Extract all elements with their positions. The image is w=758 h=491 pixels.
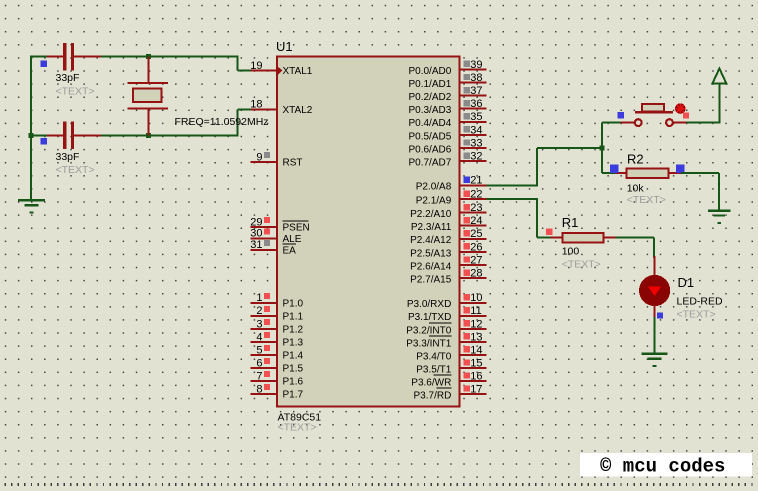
svg-text:P2.2/A10: P2.2/A10 — [410, 209, 452, 220]
U1 pin 32 (P0.7/AD7) — [408, 151, 486, 169]
svg-text:12: 12 — [470, 318, 482, 330]
value label R1 100 — [562, 245, 580, 257]
U1 pin 19 (XTAL1) — [250, 60, 313, 77]
svg-text:14: 14 — [470, 344, 482, 356]
svg-text:<TEXT>: <TEXT> — [56, 164, 95, 176]
ground (left, below C2) — [18, 200, 45, 212]
reference label R1 — [562, 215, 579, 230]
wire R2 right lead to ground — [681, 173, 719, 211]
svg-text:17: 17 — [470, 383, 482, 395]
svg-text:XTAL2: XTAL2 — [283, 105, 313, 116]
value label C2 33pF — [56, 151, 80, 163]
U1 pin 27 (P2.6/A14) — [410, 254, 486, 272]
resistor R1 100 — [546, 229, 615, 243]
svg-text:2: 2 — [256, 305, 262, 317]
U1 pin 1 (P1.0) — [250, 292, 303, 309]
svg-text:R1: R1 — [562, 215, 579, 230]
U1 pin 31 (EA) — [250, 239, 296, 256]
svg-text:15: 15 — [470, 357, 482, 369]
U1 pin 18 (XTAL2) — [250, 99, 313, 116]
svg-text:36: 36 — [470, 98, 482, 110]
svg-text:EA: EA — [283, 245, 297, 256]
U1 pin 15 (P3.5/T1) — [416, 357, 486, 375]
U1 pin 14 (P3.4/T0) — [416, 344, 486, 362]
U1 pin 25 (P2.4/A12) — [410, 228, 486, 246]
svg-text:D1: D1 — [678, 275, 695, 290]
svg-text:P0.3/AD3: P0.3/AD3 — [408, 105, 451, 116]
svg-text:33pF: 33pF — [56, 151, 80, 163]
svg-text:1: 1 — [256, 292, 262, 304]
junction dot C2 row / ground wire — [29, 133, 34, 138]
svg-text:FREQ=11.0592MHz: FREQ=11.0592MHz — [175, 116, 269, 128]
svg-text:32: 32 — [470, 151, 482, 163]
U1 pin 10 (P3.0/RXD) — [407, 292, 486, 310]
svg-text:P1.6: P1.6 — [283, 377, 304, 388]
LED D1 (LED-RED) — [639, 256, 670, 319]
property label R2 <TEXT> — [627, 194, 666, 206]
watermark banner mcu codes — [580, 453, 752, 477]
svg-text:38: 38 — [470, 72, 482, 84]
svg-text:P1.2: P1.2 — [283, 324, 304, 335]
svg-text:<TEXT>: <TEXT> — [627, 194, 666, 206]
U1 pin 34 (P0.5/AD5) — [408, 124, 486, 142]
svg-text:ALE: ALE — [283, 234, 302, 245]
value label crystal FREQ=11.0592MHz — [175, 116, 269, 128]
wire left vertical to ground — [30, 56, 32, 201]
svg-text:21: 21 — [470, 175, 482, 187]
svg-text:P1.5: P1.5 — [283, 364, 304, 375]
svg-text:P3.5/T1: P3.5/T1 — [416, 364, 451, 375]
capacitor C1 33pF — [41, 43, 101, 70]
svg-text:39: 39 — [470, 59, 482, 71]
svg-text:P1.0: P1.0 — [283, 298, 304, 309]
svg-text:P3.4/T0: P3.4/T0 — [416, 351, 451, 362]
svg-text:19: 19 — [250, 60, 262, 72]
svg-text:5: 5 — [256, 344, 262, 356]
svg-text:P3.6/WR: P3.6/WR — [411, 377, 451, 388]
U1 pin 9 (RST) — [250, 151, 302, 168]
svg-text:11: 11 — [470, 305, 481, 317]
svg-text:24: 24 — [470, 215, 482, 227]
U1 pin 5 (P1.4) — [250, 344, 303, 361]
value label C1 33pF — [56, 72, 80, 84]
push button — [618, 104, 687, 126]
junction dot node between button and R2 — [600, 146, 605, 151]
wire junction down to R2 left lead — [602, 148, 616, 173]
svg-text:P2.4/A12: P2.4/A12 — [410, 235, 452, 246]
svg-text:P0.6/AD6: P0.6/AD6 — [408, 144, 451, 155]
wire XTAL2 net: C2 row to U1 pin 18 — [30, 109, 251, 136]
U1 pin 12 (P3.2/INT0) — [406, 318, 486, 336]
svg-text:<TEXT>: <TEXT> — [278, 422, 317, 434]
U1 pin 36 (P0.3/AD3) — [408, 98, 486, 116]
svg-text:31: 31 — [250, 239, 262, 251]
resistor R2 10k — [610, 165, 684, 178]
svg-text:33pF: 33pF — [56, 72, 80, 84]
U1 pin 24 (P2.3/A11) — [411, 215, 486, 233]
U1 pin 22 (P2.1/A9) — [416, 189, 487, 207]
svg-text:P2.3/A11: P2.3/A11 — [411, 222, 452, 233]
property label C1 <TEXT> — [56, 86, 95, 98]
svg-text:P0.7/AD7: P0.7/AD7 — [408, 158, 451, 169]
svg-text:P1.3: P1.3 — [283, 337, 304, 348]
U1 pin 8 (P1.7) — [250, 383, 303, 400]
junction dot crystal top — [146, 54, 151, 59]
U1 pin 3 (P1.2) — [250, 318, 303, 335]
svg-text:P3.2/INT0: P3.2/INT0 — [406, 325, 451, 336]
svg-text:37: 37 — [470, 85, 482, 97]
U1 pin 23 (P2.2/A10) — [410, 202, 486, 220]
wire U1 pin 22 to R1 — [486, 198, 550, 237]
wire R1 right lead to LED anode — [616, 238, 654, 258]
svg-text:P3.3/INT1: P3.3/INT1 — [406, 338, 451, 349]
U1 pin 7 (P1.6) — [250, 370, 303, 387]
svg-text:16: 16 — [470, 370, 482, 382]
capacitor C2 33pF — [41, 122, 101, 149]
svg-text:23: 23 — [470, 202, 482, 214]
crystal X1 — [127, 57, 168, 136]
U1 pin 33 (P0.6/AD6) — [408, 137, 486, 155]
U1 pin 2 (P1.1) — [250, 305, 303, 322]
svg-text:27: 27 — [470, 254, 482, 266]
svg-text:25: 25 — [470, 228, 482, 240]
svg-text:P1.7: P1.7 — [283, 390, 304, 401]
U1 pin 13 (P3.3/INT1) — [406, 331, 486, 349]
svg-text:6: 6 — [256, 357, 262, 369]
U1 pin 26 (P2.5/A13) — [410, 241, 486, 259]
wire junction up to button left terminal — [602, 123, 621, 148]
svg-text:28: 28 — [470, 268, 482, 280]
svg-text:10: 10 — [470, 292, 482, 304]
U1 pin 35 (P0.4/AD4) — [408, 111, 486, 129]
svg-text:P0.0/AD0: P0.0/AD0 — [408, 66, 451, 77]
svg-text:26: 26 — [470, 241, 482, 253]
property label C2 <TEXT> — [56, 164, 95, 176]
svg-text:P0.2/AD2: P0.2/AD2 — [408, 92, 451, 103]
value label R2 10k — [627, 183, 645, 195]
property label R1 <TEXT> — [562, 258, 601, 270]
svg-text:29: 29 — [250, 216, 262, 228]
svg-text:13: 13 — [470, 331, 482, 343]
value label D1 LED-RED — [677, 296, 724, 308]
svg-text:P1.4: P1.4 — [283, 351, 304, 362]
svg-text:P0.4/AD4: P0.4/AD4 — [408, 118, 451, 129]
svg-text:P3.1/TXD: P3.1/TXD — [408, 312, 451, 323]
svg-text:R2: R2 — [627, 152, 644, 167]
svg-text:P3.0/RXD: P3.0/RXD — [407, 299, 451, 310]
power symbol (+5V up arrow) — [712, 69, 726, 124]
svg-text:33: 33 — [470, 137, 482, 149]
wire button right terminal to power rail — [686, 122, 719, 124]
svg-text:4: 4 — [256, 331, 262, 343]
svg-text:35: 35 — [470, 111, 482, 123]
svg-text:P2.0/A8: P2.0/A8 — [416, 182, 452, 193]
svg-text:P2.7/A15: P2.7/A15 — [410, 275, 452, 286]
svg-text:7: 7 — [256, 370, 262, 382]
svg-text:18: 18 — [250, 99, 262, 111]
svg-text:<TEXT>: <TEXT> — [562, 258, 601, 270]
svg-text:8: 8 — [256, 383, 262, 395]
clock input arrow at XTAL1 pin — [277, 66, 283, 76]
U1 pin 30 (ALE) — [250, 228, 301, 245]
svg-text:XTAL1: XTAL1 — [283, 66, 313, 77]
U1 pin 29 (PSEN) — [250, 216, 309, 233]
svg-text:RST: RST — [283, 158, 303, 169]
svg-text:U1: U1 — [276, 39, 293, 54]
svg-text:3: 3 — [256, 318, 262, 330]
U1 pin 11 (P3.1/TXD) — [408, 305, 486, 323]
svg-text:P2.5/A13: P2.5/A13 — [410, 248, 452, 259]
svg-text:P2.1/A9: P2.1/A9 — [416, 196, 452, 207]
svg-text:P1.1: P1.1 — [283, 311, 304, 322]
reference label U1 — [276, 39, 293, 54]
svg-text:P3.7/RD: P3.7/RD — [414, 390, 452, 401]
svg-text:P2.6/A14: P2.6/A14 — [410, 261, 452, 272]
property label D1 <TEXT> — [677, 309, 716, 321]
wire XTAL1 net: C1 row to U1 pin 19 — [30, 56, 251, 71]
svg-text:<TEXT>: <TEXT> — [677, 309, 716, 321]
IC U1 AT89C51 body — [277, 57, 459, 407]
U1 pin 16 (P3.6/WR) — [411, 370, 486, 388]
U1 pin 17 (P3.7/RD) — [414, 383, 487, 401]
U1 pin 6 (P1.5) — [250, 357, 303, 374]
U1 pin 28 (P2.7/A15) — [410, 268, 486, 286]
U1 pin 37 (P0.2/AD2) — [408, 85, 486, 103]
svg-text:<TEXT>: <TEXT> — [56, 86, 95, 98]
U1 pin 38 (P0.1/AD1) — [408, 72, 486, 90]
wire LED cathode to ground — [653, 317, 655, 354]
svg-text:P0.1/AD1: P0.1/AD1 — [408, 79, 451, 90]
reference label R2 — [627, 152, 644, 167]
ground (below R2) — [708, 211, 730, 223]
U1 pin 39 (P0.0/AD0) — [408, 59, 486, 77]
svg-text:PSEN: PSEN — [283, 223, 310, 234]
property label U1 <TEXT> — [278, 422, 317, 434]
reference label D1 — [678, 275, 695, 290]
svg-text:10k: 10k — [627, 183, 645, 195]
svg-text:34: 34 — [470, 124, 482, 136]
junction dot crystal bottom — [146, 133, 151, 138]
svg-text:30: 30 — [250, 228, 262, 240]
svg-text:100: 100 — [562, 245, 580, 257]
svg-text:9: 9 — [256, 151, 262, 163]
ground (below LED) — [641, 354, 667, 366]
button actuation marker (red starburst) — [675, 103, 689, 118]
svg-text:P0.5/AD5: P0.5/AD5 — [408, 131, 451, 142]
wire U1 pin 21 to button/R2 junction — [486, 148, 602, 186]
value label AT89C51 — [278, 411, 322, 423]
U1 pin 21 (P2.0/A8) — [416, 175, 487, 193]
svg-text:22: 22 — [470, 189, 482, 201]
U1 pin 4 (P1.3) — [250, 331, 303, 348]
svg-text:© mcu codes: © mcu codes — [600, 455, 725, 477]
svg-text:LED-RED: LED-RED — [677, 296, 724, 308]
